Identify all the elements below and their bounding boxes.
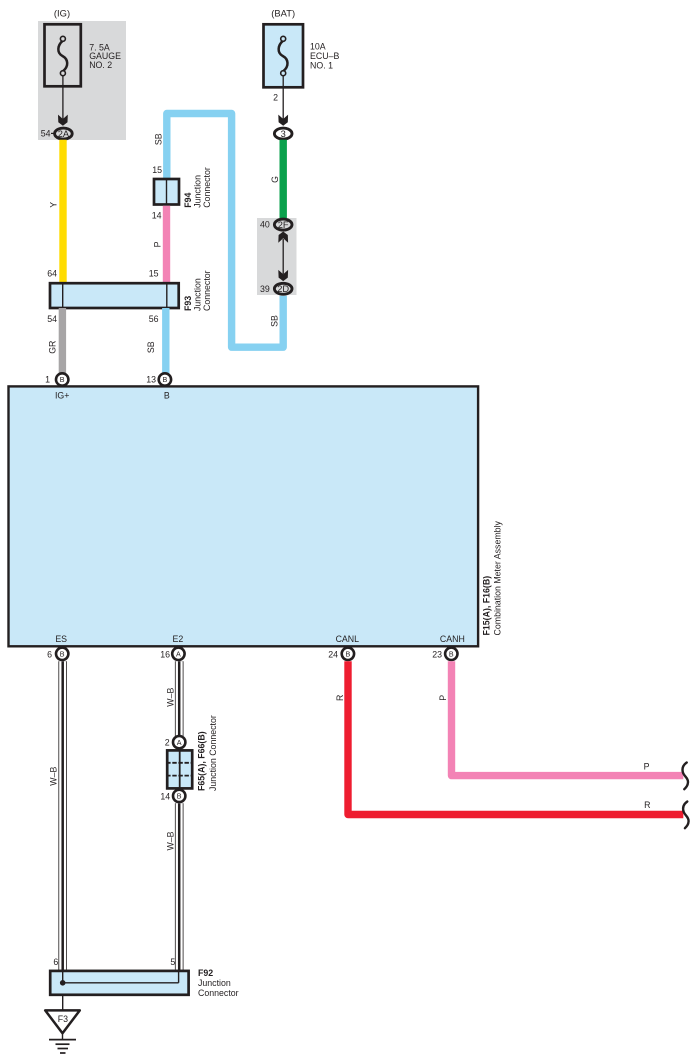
svg-text:Connector: Connector: [202, 270, 212, 311]
arrows between 2F and 2D: [278, 232, 288, 282]
svg-text:54: 54: [41, 128, 51, 138]
node B pin 13: [146, 373, 171, 400]
svg-text:14: 14: [152, 210, 162, 220]
svg-text:64: 64: [47, 268, 57, 278]
svg-text:6: 6: [53, 957, 58, 967]
svg-text:F94: F94: [183, 193, 193, 208]
svg-text:56: 56: [149, 314, 159, 324]
wire P (pink) F94 to F93: [153, 206, 167, 283]
junction connector F94: [152, 165, 212, 221]
svg-text:Connector: Connector: [202, 167, 212, 208]
svg-text:GR: GR: [48, 341, 58, 354]
svg-text:B: B: [60, 650, 65, 659]
connector 3: [274, 128, 292, 139]
connector 2F pin 40: [260, 219, 292, 230]
svg-text:10A: 10A: [310, 42, 326, 52]
wire W-B F65 to F92: [166, 803, 180, 970]
svg-text:ES: ES: [55, 634, 67, 644]
wire SB main path F94 to 2D: [153, 114, 283, 348]
svg-text:B: B: [163, 375, 168, 384]
svg-text:B: B: [164, 391, 170, 401]
connector 2D pin 39: [260, 283, 292, 294]
svg-text:F92: F92: [198, 968, 213, 978]
svg-text:G: G: [270, 176, 280, 183]
wire G (green): [270, 140, 283, 219]
svg-text:R: R: [644, 800, 650, 810]
svg-text:3: 3: [281, 129, 286, 139]
svg-text:F15(A), F16(B): F15(A), F16(B): [481, 576, 491, 636]
svg-text:R: R: [335, 695, 345, 701]
junction connector F65(A),F66(B): [160, 715, 217, 802]
svg-text:Connector: Connector: [198, 988, 239, 998]
svg-text:2F: 2F: [278, 220, 289, 230]
connector 2A pin 54: [41, 128, 72, 139]
svg-text:(IG): (IG): [54, 8, 70, 19]
svg-text:E2: E2: [173, 634, 184, 644]
svg-text:6: 6: [47, 649, 52, 659]
svg-text:5: 5: [170, 957, 175, 967]
fuse 10A ECU-B NO.1 (BAT): [264, 8, 340, 88]
svg-text:16: 16: [160, 649, 170, 659]
connector pair 2F / 2D panel: [257, 218, 297, 295]
svg-text:2: 2: [165, 738, 170, 748]
svg-text:IG+: IG+: [55, 391, 69, 401]
combination meter assembly F15(A),F16(B): [9, 386, 503, 646]
svg-text:Junction: Junction: [198, 978, 231, 988]
wire R (red) CANL: [335, 661, 688, 828]
svg-text:NO. 1: NO. 1: [310, 61, 333, 71]
svg-text:Combination Meter Assembly: Combination Meter Assembly: [492, 520, 502, 635]
svg-text:B: B: [177, 792, 182, 801]
junction connector F93: [47, 268, 212, 324]
svg-text:W–B: W–B: [166, 688, 176, 707]
svg-text:CANL: CANL: [336, 634, 360, 644]
svg-text:SB: SB: [270, 315, 280, 327]
svg-text:B: B: [449, 650, 454, 659]
node CANH pin 23: [432, 634, 465, 660]
svg-text:24: 24: [328, 649, 338, 659]
svg-text:B: B: [346, 650, 351, 659]
svg-text:P: P: [644, 761, 650, 771]
svg-text:CANH: CANH: [440, 634, 465, 644]
svg-text:SB: SB: [146, 341, 156, 353]
svg-text:W–B: W–B: [49, 767, 59, 786]
svg-text:14: 14: [160, 791, 170, 801]
node IG+ pin 1: [45, 373, 69, 400]
svg-text:54: 54: [47, 314, 57, 324]
wire fuse BAT pin 2 to connector 3 with arrow: [273, 76, 288, 126]
svg-text:F65(A), F66(B): F65(A), F66(B): [197, 731, 207, 791]
wire W-B E2 to F65: [166, 661, 180, 737]
svg-text:Y: Y: [48, 202, 58, 208]
ground F3: [45, 995, 80, 1053]
svg-text:W–B: W–B: [166, 831, 176, 850]
svg-text:23: 23: [432, 649, 442, 659]
svg-text:(BAT): (BAT): [271, 8, 295, 19]
node CANL pin 24: [328, 634, 359, 660]
svg-text:NO. 2: NO. 2: [89, 60, 112, 70]
svg-text:2: 2: [273, 92, 278, 102]
wire GR (gray) F93 to node IG+: [48, 308, 63, 377]
svg-text:15: 15: [152, 165, 162, 175]
wire fuse IG to connector 2A with arrow: [58, 76, 68, 126]
wire P (pink) CANH: [438, 661, 688, 789]
svg-text:39: 39: [260, 284, 270, 294]
svg-text:Junction Connector: Junction Connector: [208, 715, 218, 791]
junction connector F92: [50, 957, 238, 998]
svg-text:13: 13: [146, 375, 156, 385]
node ES pin 6: [47, 634, 68, 660]
svg-text:F93: F93: [183, 296, 193, 311]
fuse 7.5A GAUGE NO.2 (IG): [38, 8, 126, 141]
wire W-B ES to F92: [49, 661, 63, 970]
svg-text:P: P: [438, 695, 448, 701]
svg-text:B: B: [60, 375, 65, 384]
svg-text:15: 15: [149, 268, 159, 278]
svg-text:2D: 2D: [277, 284, 289, 294]
wire Y (yellow): [48, 140, 63, 283]
svg-text:1: 1: [45, 375, 50, 385]
node E2 pin 16: [160, 634, 184, 660]
svg-text:ECU–B: ECU–B: [310, 51, 339, 61]
svg-text:P: P: [153, 241, 163, 247]
wire SB F93 to node B: [146, 308, 166, 377]
svg-text:40: 40: [260, 219, 270, 229]
svg-text:2A: 2A: [58, 129, 70, 139]
svg-text:F3: F3: [58, 1014, 68, 1024]
svg-text:SB: SB: [153, 133, 163, 145]
